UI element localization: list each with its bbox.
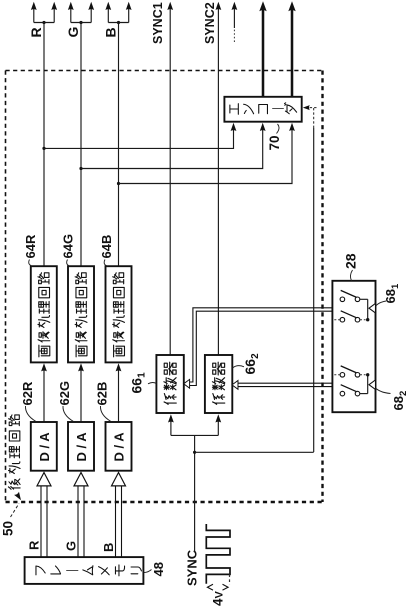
wire SYNC branch to encoder control <box>195 451 314 453</box>
label 70 with leader to encoder <box>267 124 282 151</box>
svg-text:64B: 64B <box>99 235 114 259</box>
wire SYNC input line <box>194 435 196 551</box>
svg-text:SYNC1: SYNC1 <box>151 2 165 44</box>
svg-text:B: B <box>101 543 116 552</box>
switch S2 (group 68-1) <box>334 311 365 322</box>
bus double-line switch group-1 to coefficient unit 66-1 <box>184 308 333 388</box>
wire R feed to encoder input 1 <box>44 123 236 149</box>
wire group-2 bus inside switch box <box>367 375 369 394</box>
label 62B with leader <box>95 382 111 422</box>
encoder U70 box エンコーダ <box>224 97 301 122</box>
label 後処理回路 (post-processing circuit) along left border <box>8 415 20 489</box>
svg-text:R: R <box>27 540 42 550</box>
node B branch junction <box>117 21 120 24</box>
node R feed junction <box>42 147 45 150</box>
svg-text:62B: 62B <box>95 382 110 406</box>
dashed enclosure border left (post-processing circuit 50) <box>5 71 7 503</box>
dashed enclosure border bottom (bold) <box>6 501 323 503</box>
switch S4 (group 68-2) <box>340 385 368 396</box>
label 62G with leader <box>57 381 73 422</box>
D/A converter 62G box <box>68 422 94 471</box>
svg-text:D / A: D / A <box>74 432 89 462</box>
wire G feed to encoder input 2 <box>81 123 266 169</box>
svg-text:B: B <box>103 27 119 37</box>
svg-text:D / A: D / A <box>37 432 52 462</box>
bus hollow arrow frame memory to D/A 62R <box>37 473 51 558</box>
label 66-2 with leader <box>233 353 262 375</box>
svg-text:62R: 62R <box>20 381 35 405</box>
svg-text:64R: 64R <box>23 234 38 258</box>
wire SYNC2 output (from coefficient unit 66-2 top to top edge) <box>216 2 222 355</box>
D/A converter 62B box <box>106 422 132 471</box>
dashed enclosure border top <box>6 70 323 72</box>
wire sync control line to encoder right side (dashed arrow) <box>303 105 317 452</box>
node group-1 bus junction <box>366 318 369 321</box>
label 62R with leader <box>20 381 36 421</box>
node R branch junction <box>42 21 45 24</box>
wire B feed to encoder input 3 <box>119 123 295 184</box>
switch S3 (group 68-2) <box>334 366 365 377</box>
bus hollow arrow frame memory to D/A 62B <box>112 473 126 558</box>
coefficient unit 66-2 box 係数器 <box>205 355 232 413</box>
label 68-2 with leader open arrow <box>369 380 409 411</box>
label 50 with dash-dot leader arrow to enclosure corner <box>1 492 24 536</box>
svg-text:SYNC: SYNC <box>185 549 200 586</box>
wire encoder output 1 (thick) <box>259 1 266 97</box>
image processing circuit 64R box 画像処理回路 <box>31 266 57 362</box>
svg-text:50: 50 <box>1 521 16 536</box>
node B feed junction <box>117 182 120 185</box>
label 66-1 with leader <box>129 372 157 394</box>
image processing circuit 64B box 画像処理回路 <box>106 266 132 362</box>
wire R column (from image-processing 64R up to branch) <box>43 23 45 267</box>
label SYNC1 <box>151 2 165 44</box>
label 64B with leader <box>99 235 114 267</box>
node G branch junction <box>79 21 82 24</box>
switch unit 28 box <box>332 281 375 412</box>
label R (frame memory output) <box>27 540 42 550</box>
frame memory 48 box フレームメモリ <box>25 557 144 584</box>
wire unlabeled dashed output arrow (between SYNC2 and encoder outputs) <box>232 2 238 42</box>
node group-2 bus junction <box>366 373 369 376</box>
svg-text:R: R <box>28 27 44 37</box>
wire B top branch with two output arrows <box>105 2 131 23</box>
label SYNC <box>185 549 200 586</box>
wire encoder output 2 (thick) <box>288 1 295 97</box>
svg-text:G: G <box>65 27 81 38</box>
bus double-line switch group-2 to coefficient unit 66-2 <box>232 381 332 390</box>
svg-text:70: 70 <box>267 135 282 150</box>
svg-text:D / A: D / A <box>111 432 126 462</box>
wire SYNC Y-split to coefficient units with arrows <box>168 414 221 435</box>
node G feed junction <box>79 167 82 170</box>
wire G top branch with two output arrows <box>68 2 94 23</box>
svg-text:48: 48 <box>151 562 166 576</box>
D/A converter 62R box <box>31 422 57 471</box>
svg-text:64G: 64G <box>61 234 76 259</box>
label 48 with leader <box>144 562 166 576</box>
label 4v <box>211 590 226 606</box>
svg-text:SYNC2: SYNC2 <box>203 2 217 44</box>
label B (top output) <box>103 27 119 37</box>
wire arrow D/A 62G to 64G <box>78 363 84 421</box>
label 28 with leader <box>343 253 359 281</box>
label R (top output) <box>28 27 44 37</box>
switch S1 (group 68-1) <box>340 290 368 301</box>
wire SYNC1 output (from coefficient unit 66-1 top to top edge) <box>167 2 173 355</box>
wire G column <box>80 23 82 267</box>
bus hollow arrow frame memory to D/A 62G <box>74 473 88 558</box>
label G (frame memory output) <box>64 541 79 551</box>
label G (top output) <box>65 27 81 38</box>
label 64G with leader <box>61 234 76 266</box>
coefficient unit 66-1 box 係数器 <box>156 355 183 413</box>
svg-text:62G: 62G <box>57 381 72 406</box>
label 64R with leader <box>23 234 38 266</box>
label SYNC2 <box>203 2 217 44</box>
image processing circuit 64G box 画像処理回路 <box>68 266 94 362</box>
node SYNC branch junction <box>193 451 196 454</box>
svg-text:4V: 4V <box>211 590 226 606</box>
wire group-1 bus inside switch box <box>367 299 369 319</box>
wire R top branch with two output arrows <box>31 2 57 23</box>
dashed enclosure border right (bold) <box>321 71 323 503</box>
svg-text:G: G <box>64 541 79 551</box>
dimension arrows 4v amplitude <box>207 584 228 590</box>
svg-text:28: 28 <box>343 253 359 269</box>
label 68-1 with leader open arrow <box>369 283 401 313</box>
wire B column <box>118 23 120 267</box>
wire arrow D/A 62R to 64R <box>41 363 47 421</box>
wire arrow D/A 62B to 64B <box>116 363 122 421</box>
SYNC pulse waveform <box>206 524 230 585</box>
label B (frame memory output) <box>101 543 116 552</box>
